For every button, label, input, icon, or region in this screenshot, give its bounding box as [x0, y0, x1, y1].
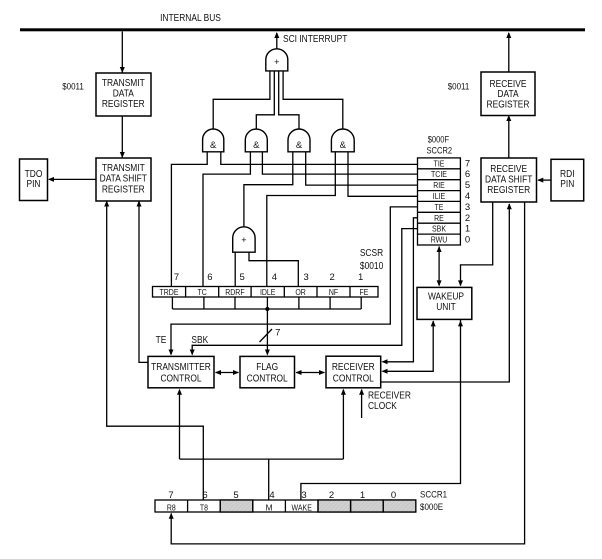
svg-text:6: 6 — [207, 272, 212, 283]
svg-text:FLAG: FLAG — [256, 362, 278, 373]
svg-text:1: 1 — [360, 490, 365, 501]
svg-text:RWU: RWU — [431, 235, 448, 245]
svg-text:SCSR: SCSR — [360, 248, 383, 259]
svg-text:RE: RE — [434, 213, 444, 223]
svg-text:OR: OR — [295, 287, 306, 297]
svg-text:CONTROL: CONTROL — [247, 373, 288, 384]
svg-text:RDRF: RDRF — [225, 287, 244, 297]
svg-text:4: 4 — [272, 272, 277, 283]
svg-text:REGISTER: REGISTER — [487, 185, 530, 196]
svg-text:$000E: $000E — [420, 502, 443, 513]
svg-text:REGISTER: REGISTER — [102, 99, 145, 110]
svg-text:0: 0 — [391, 490, 396, 501]
svg-text:RECEIVER: RECEIVER — [368, 391, 411, 402]
svg-text:RECEIVE: RECEIVE — [490, 164, 527, 175]
svg-text:$0011: $0011 — [62, 82, 84, 93]
svg-text:7: 7 — [465, 158, 470, 169]
svg-text:7: 7 — [275, 328, 280, 339]
svg-text:TIE: TIE — [434, 158, 445, 168]
svg-text:SBK: SBK — [191, 335, 208, 346]
svg-text:6: 6 — [465, 169, 470, 180]
svg-text:T8: T8 — [200, 502, 208, 512]
svg-text:2: 2 — [329, 490, 334, 501]
svg-text:REGISTER: REGISTER — [487, 100, 530, 111]
svg-text:&: & — [340, 140, 347, 151]
svg-text:5: 5 — [240, 272, 245, 283]
svg-text:DATA: DATA — [113, 88, 134, 99]
svg-text:+: + — [274, 57, 279, 67]
svg-text:SBK: SBK — [432, 224, 446, 234]
svg-text:3: 3 — [465, 202, 470, 213]
svg-text:PIN: PIN — [27, 179, 41, 190]
svg-text:TE: TE — [156, 335, 167, 346]
svg-text:SCCR1: SCCR1 — [420, 490, 447, 501]
svg-text:SCI INTERRUPT: SCI INTERRUPT — [283, 34, 347, 45]
svg-text:RIE: RIE — [433, 180, 445, 190]
svg-text:SCCR2: SCCR2 — [427, 146, 453, 156]
svg-text:TC: TC — [198, 287, 207, 297]
svg-text:2: 2 — [465, 213, 470, 224]
svg-text:DATA SHIFT: DATA SHIFT — [100, 174, 147, 185]
svg-text:5: 5 — [233, 490, 238, 501]
svg-text:TRANSMIT: TRANSMIT — [102, 78, 145, 89]
svg-text:0: 0 — [465, 235, 470, 246]
svg-text:TRANSMITTER: TRANSMITTER — [151, 362, 211, 373]
svg-text:3: 3 — [304, 272, 309, 283]
svg-text:5: 5 — [465, 180, 470, 191]
svg-text:2: 2 — [330, 272, 335, 283]
svg-text:$0011: $0011 — [448, 82, 470, 93]
svg-text:CONTROL: CONTROL — [333, 373, 374, 384]
svg-text:+: + — [241, 235, 246, 245]
svg-text:1: 1 — [465, 224, 470, 235]
svg-text:1: 1 — [358, 272, 363, 283]
svg-text:WAKEUP: WAKEUP — [428, 291, 464, 302]
svg-text:UNIT: UNIT — [436, 302, 456, 313]
svg-text:3: 3 — [301, 490, 306, 501]
svg-text:7: 7 — [168, 490, 173, 501]
svg-text:4: 4 — [465, 191, 470, 202]
svg-text:TE: TE — [435, 202, 444, 212]
svg-text:RECEIVER: RECEIVER — [332, 362, 375, 373]
svg-text:FE: FE — [360, 287, 369, 297]
svg-text:7: 7 — [174, 272, 179, 283]
svg-text:TRANSMIT: TRANSMIT — [102, 163, 145, 174]
svg-text:4: 4 — [269, 490, 274, 501]
svg-text:WAKE: WAKE — [292, 502, 313, 512]
svg-text:R8: R8 — [167, 502, 176, 512]
svg-text:&: & — [210, 140, 217, 151]
svg-text:&: & — [296, 140, 303, 151]
svg-text:IDLE: IDLE — [260, 287, 276, 297]
svg-text:6: 6 — [202, 490, 207, 501]
svg-text:CONTROL: CONTROL — [160, 373, 201, 384]
svg-text:M: M — [266, 502, 273, 512]
svg-text:INTERNAL BUS: INTERNAL BUS — [160, 13, 221, 24]
svg-text:&: & — [253, 140, 260, 151]
svg-text:REGISTER: REGISTER — [102, 184, 145, 195]
svg-text:TCIE: TCIE — [431, 169, 447, 179]
svg-text:DATA SHIFT: DATA SHIFT — [485, 174, 532, 185]
svg-text:PIN: PIN — [560, 179, 574, 190]
svg-text:$0010: $0010 — [360, 261, 384, 272]
svg-text:NF: NF — [329, 287, 338, 297]
svg-text:$000F: $000F — [428, 135, 450, 145]
svg-text:ILIE: ILIE — [433, 191, 446, 201]
svg-text:TRDE: TRDE — [160, 287, 179, 297]
svg-text:CLOCK: CLOCK — [368, 401, 397, 412]
